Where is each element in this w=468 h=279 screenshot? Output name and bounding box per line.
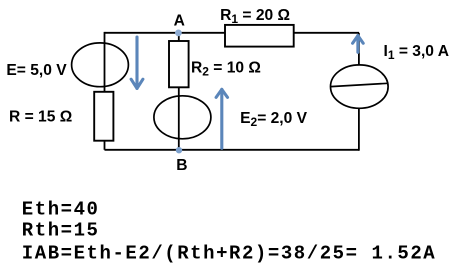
wire right vertical lower (358, 108, 360, 150)
current direction arrow (up, source I1) (353, 36, 364, 53)
svg-text:R1 = 20 Ω: R1 = 20 Ω (220, 7, 290, 26)
current direction arrow (down, left branch) (131, 37, 143, 88)
wire right vertical upper (into current source) (358, 33, 360, 66)
current source I1 crossbar (331, 83, 389, 86)
wire node A to R2 top (178, 33, 180, 41)
current source I1 ellipse (331, 65, 389, 108)
voltage source E2 ellipse (154, 96, 211, 139)
resistor R (94, 92, 113, 141)
svg-text:Rth=15: Rth=15 (22, 220, 100, 242)
current direction arrow (up, middle branch E2) (216, 89, 227, 148)
svg-text:E= 5,0 V: E= 5,0 V (6, 62, 67, 79)
svg-text:B: B (176, 157, 187, 174)
svg-text:IAB=Eth-E2/(Rth+R2)=38/25= 1.5: IAB=Eth-E2/(Rth+R2)=38/25= 1.52A (22, 242, 436, 264)
resistor R2 (169, 41, 189, 87)
wire R2 bottom through source E2 to node B (178, 87, 180, 150)
svg-text:I1 = 3,0 A: I1 = 3,0 A (384, 43, 450, 62)
wire left vertical through source E (104, 32, 106, 92)
node A junction dot (175, 30, 182, 37)
svg-text:R = 15 Ω: R = 15 Ω (9, 108, 72, 125)
svg-text:Eth=40: Eth=40 (22, 199, 100, 221)
svg-text:E2= 2,0 V: E2= 2,0 V (240, 110, 308, 129)
wire top-right horizontal segment (294, 32, 359, 34)
svg-text:R2 = 10 Ω: R2 = 10 Ω (191, 59, 261, 78)
wire top-left horizontal A-segment (105, 32, 226, 34)
svg-text:A: A (174, 13, 185, 30)
node B junction dot (176, 147, 182, 153)
voltage source E ellipse (72, 43, 129, 87)
resistor R1 (225, 25, 294, 47)
wire left vertical below R (104, 141, 106, 150)
wire bottom horizontal (105, 149, 360, 151)
